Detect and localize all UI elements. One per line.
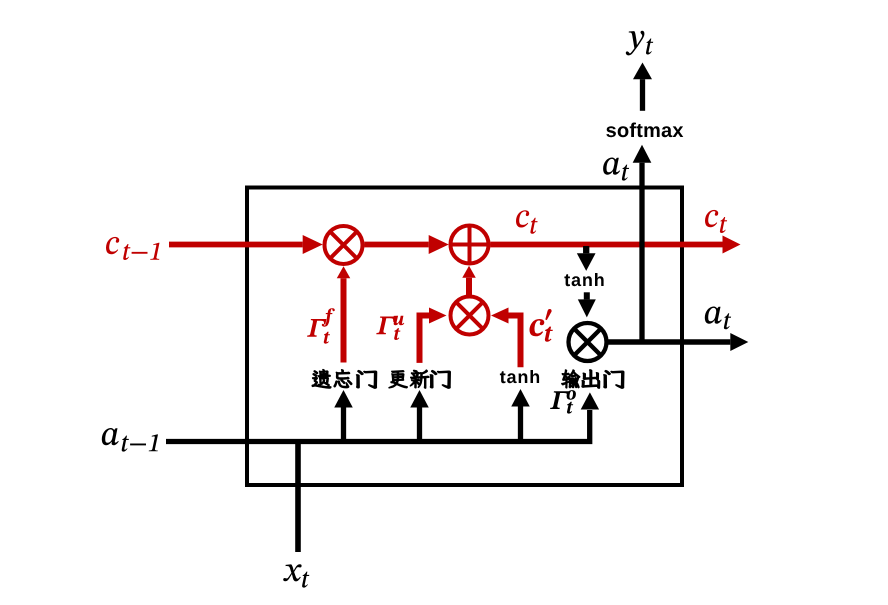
wire a_t-1 input with bend up to output gate (166, 410, 590, 442)
arrowhead to output gate (581, 392, 599, 409)
label gate Γ_t^o (550, 390, 576, 414)
label c_t (output) (705, 210, 727, 233)
arrow to forget gate (341, 408, 346, 442)
label a_t (right) (705, 307, 731, 330)
label gate Γ_t^u (376, 316, 404, 340)
wire x_t input (295, 440, 301, 553)
label c_t (internal) (516, 210, 538, 234)
wire c_t-1 to multiply (169, 242, 303, 248)
label output gate 输出门 (562, 370, 580, 388)
multiply node (update) (451, 297, 489, 335)
wire multiply to add (364, 242, 428, 248)
label a_t-1 (102, 428, 158, 452)
arrow from c_t down to tanh (583, 246, 589, 253)
label x_t (283, 564, 309, 587)
wire a_t up through box (639, 163, 644, 342)
add node (451, 226, 489, 264)
arrow to update gate (417, 408, 422, 442)
arrow tanh down to output multiply (584, 292, 590, 299)
arrow tanh candidate into second multiply (509, 316, 521, 368)
label update gate 更新门 (389, 371, 408, 388)
label tanh (candidate) (500, 370, 539, 383)
output multiply node (569, 323, 607, 361)
multiply node (forget) (325, 226, 363, 264)
wire c_t output (490, 242, 722, 248)
arrow second multiply into add (466, 278, 472, 296)
label gate Γ_t^f (307, 308, 335, 344)
arrow to tanh (518, 407, 523, 442)
arrow forget gate into multiply (341, 278, 347, 362)
cell box (247, 188, 682, 486)
label a_t (top) (603, 158, 629, 181)
arrow softmax to y_t (640, 79, 645, 111)
label candidate c′_t (530, 309, 553, 342)
label forget gate 遗忘门 (312, 370, 331, 389)
wire a_t output (605, 339, 731, 345)
label softmax (606, 123, 683, 138)
label tanh (from c_t) (564, 273, 603, 286)
arrow update gate into second multiply (420, 316, 430, 363)
label c_t-1 (106, 237, 160, 260)
label y_t (626, 31, 653, 56)
